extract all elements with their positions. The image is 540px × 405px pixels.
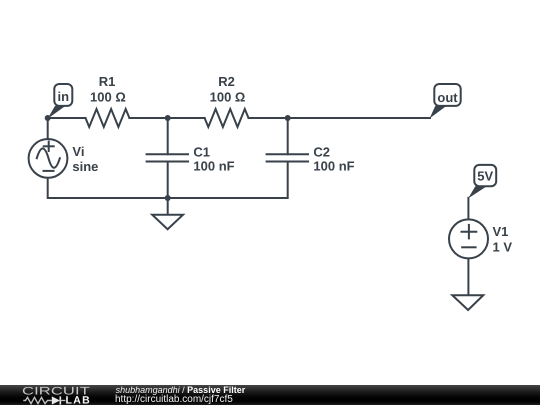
svg-text:100 nF: 100 nF bbox=[313, 159, 354, 174]
svg-text:100 Ω: 100 Ω bbox=[90, 89, 126, 104]
svg-text:V1: V1 bbox=[493, 224, 509, 239]
svg-text:LAB: LAB bbox=[66, 395, 91, 405]
svg-text:100 Ω: 100 Ω bbox=[210, 89, 246, 104]
svg-text:5V: 5V bbox=[477, 169, 493, 184]
svg-text:out: out bbox=[437, 90, 458, 105]
svg-text:C2: C2 bbox=[313, 145, 330, 160]
svg-text:R1: R1 bbox=[99, 74, 116, 89]
svg-text:C1: C1 bbox=[193, 145, 210, 160]
svg-text:in: in bbox=[58, 89, 70, 104]
svg-text:Vi: Vi bbox=[72, 144, 84, 159]
svg-text:R2: R2 bbox=[218, 74, 235, 89]
svg-text:100 nF: 100 nF bbox=[193, 159, 234, 174]
svg-text:1 V: 1 V bbox=[493, 239, 513, 254]
svg-text:sine: sine bbox=[72, 159, 98, 174]
